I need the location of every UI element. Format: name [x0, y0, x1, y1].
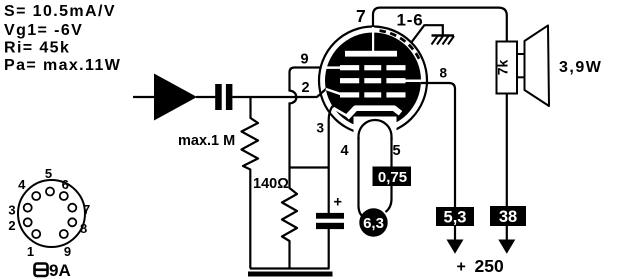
heater leg pin 5	[386, 137, 392, 212]
svg-text:5: 5	[45, 166, 52, 181]
speaker LS1	[525, 25, 550, 106]
wire grid node	[232, 96, 317, 98]
wire grid diagonal into tube pin 2	[317, 89, 326, 97]
svg-text:3: 3	[8, 203, 15, 218]
arrow to +250 right	[498, 240, 515, 254]
wire tube pin 3 cathode lead	[329, 106, 333, 168]
output transformer 7k body	[497, 42, 518, 94]
wire transformer to speaker top	[517, 53, 525, 55]
tube g3 white lead to pin 9	[327, 66, 341, 69]
socket pin holes	[24, 188, 77, 239]
wire pin 9 to cathode junction with hop over grid wire	[290, 68, 322, 168]
wire input lead	[133, 96, 155, 98]
input arrow	[154, 74, 197, 121]
tube g2 white lead to pin 8	[406, 80, 422, 83]
electrolytic capacitor bottom plate	[316, 223, 344, 229]
svg-text:5: 5	[393, 143, 401, 159]
socket label B glyph	[35, 264, 48, 277]
tube grid g3 dashes row 1	[340, 65, 406, 70]
tube heater arch	[359, 120, 392, 140]
heater voltage circle 6,3	[359, 208, 387, 236]
svg-text:7: 7	[356, 6, 366, 26]
tube heater white notch window	[354, 117, 397, 136]
current box 38	[490, 206, 526, 226]
svg-text:9A: 9A	[49, 261, 71, 279]
current box 5,3	[436, 207, 474, 226]
svg-text:3,9W: 3,9W	[559, 59, 602, 76]
capacitor C1 coupling plate right	[226, 84, 233, 110]
tube cathode white lead to pin 3	[334, 108, 349, 117]
tube V1 inner black disc	[325, 33, 421, 129]
resistor 140 ohm cathode	[282, 168, 297, 269]
svg-text:Ri= 45k: Ri= 45k	[4, 40, 70, 57]
wire anode pin 7 top lead	[373, 8, 507, 42]
tube anode white lead to pin 7	[372, 27, 374, 52]
svg-text:+: +	[334, 195, 342, 211]
svg-text:1: 1	[27, 244, 34, 259]
wire cathode junction horizontal	[290, 166, 330, 168]
svg-text:S= 10.5mA/V: S= 10.5mA/V	[4, 3, 116, 20]
tube anode plate white bar	[345, 51, 397, 57]
wire pins 1-6 to chassis	[411, 25, 443, 42]
resistor max.1M grid leak	[242, 97, 259, 269]
wire cathode to electrolytic capacitor	[328, 168, 330, 214]
svg-text:1-6: 1-6	[397, 11, 424, 30]
tube internal shield dashed arc pins 1-6	[380, 31, 421, 62]
svg-text:max.1 M: max.1 M	[178, 133, 235, 149]
svg-text:4: 4	[341, 143, 349, 159]
svg-text:7k: 7k	[495, 60, 511, 76]
svg-text:2: 2	[302, 80, 310, 96]
svg-text:3: 3	[317, 121, 325, 136]
tube grid g2 dashes row 2	[340, 78, 406, 83]
ground rail wire	[250, 267, 330, 269]
wire screen grid pin 8 to supply	[421, 83, 455, 207]
svg-text:6,3: 6,3	[363, 215, 384, 232]
svg-text:9: 9	[64, 244, 71, 259]
svg-text:9: 9	[301, 52, 309, 68]
ground rail chassis bar	[248, 272, 333, 277]
wire arrow to capacitor	[196, 96, 216, 98]
chassis ground bar	[432, 34, 455, 36]
svg-text:4: 4	[18, 177, 26, 192]
capacitor C1 coupling plate left	[215, 84, 222, 110]
svg-text:8: 8	[440, 66, 448, 81]
electrolytic capacitor top plate	[316, 213, 344, 219]
svg-text:250: 250	[475, 256, 504, 276]
arrow to +250 left	[447, 240, 464, 254]
tube g1 white lead to pin 2	[326, 89, 342, 94]
chassis ground hatching	[432, 36, 455, 45]
svg-text:2: 2	[8, 218, 15, 233]
svg-text:8: 8	[80, 221, 87, 236]
svg-text:Pa= max.11W: Pa= max.11W	[4, 57, 121, 74]
svg-text:0,75: 0,75	[378, 169, 407, 186]
wire 38 to arrow	[506, 226, 508, 241]
tube V1 envelope outer circle	[319, 27, 427, 135]
wire electrolytic to ground rail	[328, 229, 330, 269]
wire anode supply from transformer	[506, 94, 508, 207]
tube cathode white element	[347, 108, 401, 117]
wire transformer to speaker bottom	[517, 76, 525, 78]
socket B9A outline	[18, 180, 85, 247]
svg-text:Vg1= -6V: Vg1= -6V	[4, 22, 83, 39]
svg-text:140Ω: 140Ω	[253, 176, 289, 192]
svg-text:7: 7	[83, 202, 90, 217]
svg-text:+: +	[457, 259, 466, 276]
svg-text:6: 6	[62, 177, 69, 192]
wire 5,3 to arrow	[454, 226, 456, 241]
svg-text:38: 38	[499, 208, 517, 226]
heater leg pin 4	[359, 137, 365, 218]
tube grid g1 dashes row 3	[340, 92, 406, 97]
current box 0,75	[373, 167, 412, 187]
svg-text:5,3: 5,3	[444, 209, 467, 227]
